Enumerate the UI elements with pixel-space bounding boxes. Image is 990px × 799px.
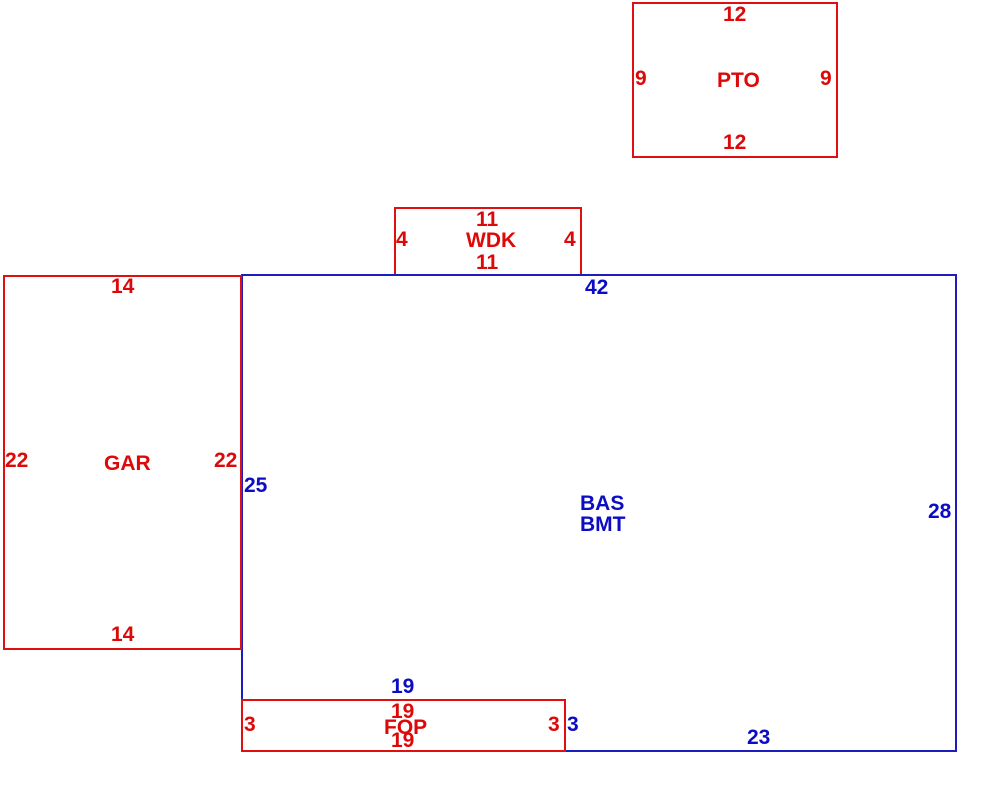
label FOP: [384, 717, 427, 738]
dim 23 BAS bottom: [747, 727, 770, 748]
dim 19 FOP top: [391, 701, 414, 722]
dim 19 BAS bottom-left (above FOP): [391, 676, 414, 697]
dim 12 PTO top: [723, 4, 746, 25]
dim 25 BAS left: [244, 475, 267, 496]
room BAS/BMT outline: [241, 274, 958, 753]
dim 3 FOP right: [548, 714, 560, 735]
room WDK outline: [394, 207, 583, 276]
dim 3 FOP left: [244, 714, 256, 735]
label GAR: [104, 453, 151, 474]
dim 11 WDK bottom: [476, 252, 498, 273]
label WDK: [466, 230, 516, 251]
dim 42 BAS top: [585, 277, 608, 298]
label PTO: [717, 70, 760, 91]
dim 28 BAS right: [928, 501, 951, 522]
room GAR outline: [3, 275, 242, 650]
room FOP outline: [241, 699, 566, 752]
dim 4 WDK right: [564, 229, 576, 250]
dim 12 PTO bottom: [723, 132, 746, 153]
dim 14 GAR bottom: [111, 624, 134, 645]
dim 9 PTO right: [820, 68, 832, 89]
dim 3 BAS notch right of FOP: [567, 714, 579, 735]
dim 9 PTO left: [635, 68, 647, 89]
room PTO outline: [632, 2, 838, 158]
dim 22 GAR left: [5, 450, 28, 471]
dim 14 GAR top: [111, 276, 134, 297]
dim 19 FOP bottom: [391, 730, 414, 751]
label BAS BMT: [580, 493, 626, 535]
dim 11 WDK top: [476, 209, 498, 230]
dim 4 WDK left: [396, 229, 408, 250]
dim 22 GAR right: [214, 450, 237, 471]
